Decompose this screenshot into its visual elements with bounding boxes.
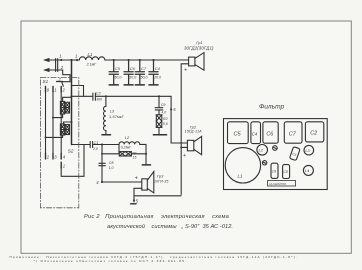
svg-text:S2: S2 <box>68 149 74 154</box>
board inductor L2 <box>257 145 268 156</box>
wire: R2 to ground bar <box>158 127 160 134</box>
capacitor C6 <box>124 60 133 85</box>
svg-text:С6: С6 <box>130 66 136 71</box>
svg-text:Гр3: Гр3 <box>157 174 164 179</box>
board inductor L1 <box>225 148 260 183</box>
contact 1 <box>52 87 54 93</box>
board capacitor C2 <box>305 122 323 142</box>
speaker Gr3 <box>142 172 154 193</box>
wiper pos label 2 <box>58 78 62 82</box>
ground bar under L3 <box>102 134 111 136</box>
capacitor C2 <box>93 93 96 100</box>
svg-text:1: 1 <box>63 163 65 168</box>
label 15GD-11A <box>185 130 203 134</box>
wire: wiper feed to C2 row <box>72 86 84 97</box>
svg-text:*) Обозначение обмоточных голо: *) Обозначение обмоточных головок по ОСТ… <box>34 259 188 263</box>
resistor R1 <box>119 152 131 156</box>
terminal bar node5 <box>131 203 136 205</box>
svg-text:Гр1: Гр1 <box>196 40 202 45</box>
board terminal strip <box>268 181 296 186</box>
svg-text:L1: L1 <box>238 174 244 179</box>
label R1 <box>132 151 137 155</box>
wire: R3R4 top stub <box>63 97 72 101</box>
node junction C8 top <box>101 143 103 145</box>
speaker Gr2 <box>187 136 201 154</box>
svg-text:С1: С1 <box>94 141 99 145</box>
svg-text:20,0: 20,0 <box>153 76 161 80</box>
ground bar under R2 <box>153 134 166 136</box>
value 4.0 <box>161 111 166 115</box>
inductor L1 <box>79 57 105 60</box>
wire: R5R6 top stub <box>64 122 72 124</box>
board capacitor C9 <box>271 163 278 178</box>
capacitor C8 <box>99 163 105 165</box>
wire: bold line to C2 <box>72 95 93 97</box>
contact digit 0 <box>47 87 50 92</box>
node junction L1 input <box>76 59 78 61</box>
wire: R1 left tap <box>102 145 119 183</box>
node junction on top rail <box>60 59 62 61</box>
node label 5 <box>173 107 176 112</box>
svg-text:30ГД2(30ГД1): 30ГД2(30ГД1) <box>184 45 214 50</box>
input arrow terminal 2 <box>44 68 49 71</box>
resistor R5 <box>60 124 64 135</box>
wire: bold vertical plus rail <box>71 60 73 145</box>
board capacitor C4 <box>251 122 261 144</box>
svg-text:ЦЧ ШЛ2Г0Л: ЦЧ ШЛ2Г0Л <box>269 182 286 186</box>
svg-text:L2: L2 <box>125 135 130 140</box>
node 4 junction <box>101 181 103 183</box>
footnote line 2 <box>34 259 188 263</box>
svg-text:L4: L4 <box>305 169 309 173</box>
contact 0 <box>45 87 47 93</box>
speaker Gr1 <box>189 53 204 71</box>
resistor R3 <box>60 102 64 115</box>
capacitor C9 <box>155 96 163 115</box>
value 3.0 <box>96 98 102 102</box>
svg-text:0,23мГ: 0,23мГ <box>121 145 131 149</box>
node junction C9 branch <box>158 95 160 97</box>
svg-text:5,6: 5,6 <box>163 122 168 126</box>
dash-dot enclosure <box>40 78 78 208</box>
node 5b stub <box>133 196 135 202</box>
switch S1 <box>57 82 64 87</box>
switch S2 contact 1 <box>60 162 62 168</box>
wire: midrange feed down to Gr2 <box>171 96 187 143</box>
board capacitor C7 <box>284 122 302 143</box>
wire: Gr3 return rail <box>134 188 181 196</box>
wire: R5R6 bottom stub <box>46 135 63 137</box>
input arrow terminal 1 <box>44 58 49 61</box>
svg-text:1,0: 1,0 <box>109 166 114 170</box>
caption line 2 <box>107 223 233 230</box>
label L3 <box>110 108 115 113</box>
board capacitor C6 <box>263 122 278 143</box>
node 5 junction <box>170 108 172 110</box>
svg-text:1,67мкГ: 1,67мкГ <box>109 114 125 119</box>
svg-text:Рис 2 Принципиальная элек: Рис 2 Принципиальная электрическая схема <box>84 214 229 220</box>
value 0.23mH <box>121 145 131 149</box>
board capacitor C5 <box>228 122 249 144</box>
resistor R6 <box>65 125 69 135</box>
label 10GI-35 <box>154 179 168 183</box>
svg-text:S1: S1 <box>43 79 49 84</box>
svg-text:С8: С8 <box>284 170 288 174</box>
wire: R3R4 bottom stub <box>53 114 63 118</box>
wire: S1 column b <box>52 92 54 153</box>
svg-text:С4: С4 <box>252 131 258 136</box>
svg-text:С2: С2 <box>310 131 317 137</box>
svg-text:50,0: 50,0 <box>114 76 121 80</box>
svg-text:15: 15 <box>133 156 137 160</box>
polarity plus Gr2 <box>183 153 186 159</box>
svg-text:С4: С4 <box>155 66 161 71</box>
wire: lower input to switch S1 <box>45 70 71 82</box>
label C2 <box>96 92 102 96</box>
label Gr3 <box>157 174 164 179</box>
bottom tick 3 <box>52 153 54 159</box>
polarity plus Gr3 <box>135 175 138 181</box>
wire: Gr2 plus stub <box>181 146 187 148</box>
svg-text:15ГД-11А: 15ГД-11А <box>185 130 203 134</box>
svg-text:С7: С7 <box>141 66 147 71</box>
board capacitor C8 <box>283 165 290 179</box>
label L2 <box>125 135 130 140</box>
caption line 1 <box>84 214 229 220</box>
svg-text:акустической системы „ S-: акустической системы „ S-90” 35 АС -012. <box>107 223 233 230</box>
node junction bold-line tap <box>70 59 72 61</box>
node junction L3 tap <box>105 95 107 97</box>
svg-text:L1: L1 <box>88 52 93 57</box>
contact digit 1 <box>54 87 56 92</box>
svg-text:L3: L3 <box>110 108 115 113</box>
svg-text:Гр2: Гр2 <box>190 124 197 129</box>
wire: Gr1 return vertical <box>181 64 188 195</box>
svg-text:С7: С7 <box>289 131 297 137</box>
wire: S1 column a <box>45 92 47 153</box>
label R2 <box>163 117 168 121</box>
node label 4 <box>96 180 99 185</box>
wire: top input rail to speaker Gr1 <box>45 59 189 61</box>
label Gr1 <box>196 40 202 45</box>
capacitor C7 <box>135 60 144 85</box>
svg-text:1: 1 <box>54 87 56 92</box>
value 1.67mH <box>109 114 125 119</box>
board inductor L4 <box>303 165 313 175</box>
label 30GD2 <box>184 45 214 50</box>
label C9 <box>161 103 166 107</box>
svg-text:Фильтр: Фильтр <box>259 104 285 111</box>
wire: S2 loop to C1 <box>61 145 84 177</box>
value 2.1mH <box>86 63 98 67</box>
capacitor C4 <box>149 60 158 85</box>
wire: node4 to Gr3 <box>102 181 142 183</box>
value 1.0 <box>109 166 114 170</box>
svg-text:10ГИ-35: 10ГИ-35 <box>154 179 168 183</box>
wire: S1 column c <box>60 92 62 153</box>
svg-text:2: 2 <box>60 65 64 70</box>
connector X1 bars <box>56 59 58 72</box>
bottom tick 2 <box>45 153 47 159</box>
label C1 <box>94 141 99 145</box>
svg-text:2.1мГ: 2.1мГ <box>86 63 98 67</box>
pin label 2 <box>60 65 64 70</box>
wire: L2 left vertical <box>118 144 120 153</box>
svg-text:300: 300 <box>96 98 102 102</box>
svg-text:+: + <box>183 153 186 159</box>
node label 5 <box>136 198 139 203</box>
polarity plus Gr1 <box>184 67 187 73</box>
svg-text:С5: С5 <box>115 66 121 71</box>
svg-text:С6: С6 <box>266 131 273 137</box>
pin label 1 <box>59 54 62 59</box>
svg-text:50,0: 50,0 <box>129 76 136 80</box>
capacitor C5 <box>109 60 118 85</box>
value 2.0 <box>92 147 98 151</box>
resistor R2 <box>156 115 162 128</box>
footnote line 1 <box>10 255 299 259</box>
label Gr2 <box>190 124 197 129</box>
value 15 <box>133 156 137 160</box>
wire: L2 R1 right junction down <box>131 144 146 164</box>
label Filter <box>259 104 285 111</box>
board screw b <box>262 161 266 165</box>
svg-text:2,0: 2,0 <box>92 147 98 151</box>
contact 2 <box>60 87 62 93</box>
value 5.6 <box>163 122 168 126</box>
inductor L3 <box>103 96 105 134</box>
svg-text:С9: С9 <box>272 170 276 174</box>
inductor L2 <box>119 142 140 145</box>
svg-text:4,0: 4,0 <box>161 111 166 115</box>
board inductor L3 <box>304 145 314 155</box>
board screw a <box>273 146 278 151</box>
ground bar under L2R1 <box>142 164 150 166</box>
contact digit 2 <box>62 87 66 92</box>
svg-text:С9: С9 <box>161 103 166 107</box>
resistor R4 <box>65 102 69 113</box>
pin label 1 (second) <box>75 54 78 59</box>
svg-text:50,0: 50,0 <box>141 76 148 80</box>
switch S2 contact 4 <box>60 153 62 159</box>
label C8 <box>109 161 115 165</box>
label S1 <box>43 79 49 84</box>
svg-text:+: + <box>184 67 187 73</box>
label S2 <box>68 149 74 154</box>
board capacitor C1 <box>289 147 300 161</box>
svg-text:R2: R2 <box>163 117 168 121</box>
board outline <box>224 119 328 190</box>
svg-text:+: + <box>135 175 138 181</box>
label L1 <box>88 52 93 57</box>
wire: midrange rail <box>95 95 171 97</box>
capacitor C1 <box>72 142 120 148</box>
svg-text:С5: С5 <box>234 132 242 138</box>
